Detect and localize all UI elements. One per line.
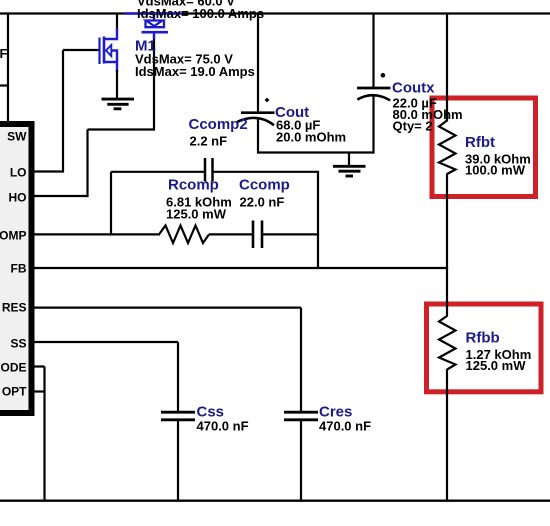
- capacitor Coutx polarity mark: [381, 73, 386, 78]
- capacitor Ccomp plates: [252, 221, 255, 249]
- wire Coutx stem lower: [372, 94, 374, 154]
- svg-text:RES: RES: [2, 301, 27, 315]
- capacitor Coutx top plate: [357, 87, 391, 90]
- capacitor Ccomp2 plates: [204, 158, 207, 182]
- svg-text:100.0 mW: 100.0 mW: [465, 163, 526, 178]
- wire Css upper stem: [177, 342, 179, 412]
- svg-text:LO: LO: [10, 166, 27, 180]
- diode D1 anode stem: [153, 14, 155, 21]
- svg-text:MODE: MODE: [0, 361, 27, 375]
- svg-text:Rfbt: Rfbt: [465, 134, 495, 151]
- wire FB pin run: [31, 267, 448, 269]
- svg-text:Ccomp2: Ccomp2: [189, 116, 248, 133]
- wire Css lower stem: [177, 421, 179, 502]
- transistor M1 gate bar: [98, 38, 100, 65]
- svg-text:SS: SS: [10, 337, 26, 351]
- diode D1 triangle: [146, 21, 163, 27]
- wire gate horizontal to M1: [63, 49, 99, 51]
- wire MODE stub: [31, 365, 45, 367]
- diode D1 lower bar: [142, 31, 169, 34]
- svg-text:Qty= 2: Qty= 2: [393, 118, 433, 133]
- svg-text:470.0 nF: 470.0 nF: [197, 419, 249, 434]
- svg-text:FB: FB: [11, 262, 27, 276]
- ground under output caps: [333, 166, 366, 176]
- wire output caps bottom: [258, 151, 374, 153]
- capacitor Cout top plate: [241, 111, 275, 114]
- svg-text:Rcomp: Rcomp: [168, 177, 219, 194]
- svg-text:2.2 nF: 2.2 nF: [190, 133, 228, 148]
- wire top rail VIN net: [0, 12, 550, 14]
- svg-text:HO: HO: [9, 191, 27, 205]
- svg-text:COMP: COMP: [0, 229, 27, 243]
- svg-text:Coutx: Coutx: [392, 80, 435, 97]
- wire Cres lower stem: [300, 421, 302, 502]
- diode D1 cathode bar with ticks: [146, 21, 165, 28]
- wire M1 source to ground: [116, 70, 118, 99]
- wire comp left vertical: [110, 172, 112, 235]
- wire HO riser: [86, 130, 88, 198]
- capacitor Cres plates: [284, 411, 318, 414]
- capacitor Cout curved plate: [237, 118, 274, 125]
- wire comp right vertical to FB: [317, 172, 319, 268]
- red highlight box Rfbt: [432, 98, 536, 197]
- transistor M1 body arrow: [106, 45, 111, 56]
- ground under M1: [102, 99, 135, 109]
- transistor M1 drain stub: [104, 28, 117, 39]
- wire gate riser vertical: [62, 50, 64, 173]
- wire Ccomp to right leg: [263, 233, 319, 235]
- wire right rail lower: [446, 369, 448, 502]
- wire left drop to IC top pin: [7, 14, 9, 124]
- svg-text:125.0 mW: 125.0 mW: [166, 206, 227, 221]
- wire diode cathode drop: [153, 36, 155, 131]
- svg-text:Ccomp: Ccomp: [239, 177, 290, 194]
- svg-text:20.0 mOhm: 20.0 mOhm: [276, 129, 346, 144]
- IC U1 controller box: [0, 124, 32, 413]
- svg-text:OPT: OPT: [2, 385, 27, 399]
- transistor M1 source stub: [104, 62, 117, 72]
- diode D1 cathode stem blue: [153, 32, 155, 39]
- svg-text:22.0 nF: 22.0 nF: [240, 194, 285, 209]
- wire OPT stub: [31, 390, 45, 392]
- resistor Rcomp zigzag: [159, 226, 209, 244]
- wire M1 drain to top rail: [116, 14, 118, 31]
- wire RES pin run: [31, 307, 301, 309]
- wire comp upper branch right: [214, 171, 320, 173]
- wire Cout stem lower: [257, 119, 259, 154]
- diode D1 top blue wire segment: [125, 12, 182, 14]
- wire Cout stem upper: [257, 14, 259, 112]
- wire stub from cut-off input cap: [0, 84, 9, 86]
- wire SS pin run: [31, 341, 178, 343]
- svg-text:125.0 mW: 125.0 mW: [466, 358, 527, 373]
- transistor M1 body stub: [111, 51, 118, 63]
- resistor Rfbb zigzag: [439, 316, 456, 370]
- wire COMP pin run: [31, 233, 160, 235]
- wire comp upper branch left: [111, 171, 204, 173]
- resistor Rfbt zigzag: [439, 121, 456, 175]
- wire Rcomp to Ccomp: [209, 233, 252, 235]
- wire MODE-OPT drop to bottom rail: [43, 367, 45, 502]
- svg-text:µF: µF: [0, 46, 7, 61]
- capacitor Css plates: [161, 411, 195, 414]
- red highlight box Rfbb: [427, 304, 542, 392]
- wire HO upper horizontal: [88, 128, 155, 130]
- wire bottom rail GND net: [0, 500, 550, 502]
- wire Coutx stem upper: [372, 14, 374, 88]
- wire right rail upper: [446, 14, 448, 122]
- svg-text:470.0 nF: 470.0 nF: [319, 419, 371, 434]
- capacitor Cout polarity mark: [265, 98, 270, 103]
- svg-text:Rfbb: Rfbb: [466, 330, 500, 347]
- wire LO pin to gate riser: [31, 170, 63, 172]
- svg-text:IdsMax= 100.0 Amps: IdsMax= 100.0 Amps: [137, 6, 264, 21]
- transistor M1 channel bar: [103, 37, 106, 64]
- svg-text:SW: SW: [7, 130, 27, 144]
- wire Cres upper stem: [300, 308, 302, 412]
- wire ground2 stem: [348, 153, 350, 167]
- svg-text:IdsMax= 19.0 Amps: IdsMax= 19.0 Amps: [135, 64, 255, 79]
- wire right rail middle: [446, 174, 448, 317]
- capacitor Coutx curved plate: [357, 95, 390, 100]
- wire HO pin run: [31, 195, 88, 197]
